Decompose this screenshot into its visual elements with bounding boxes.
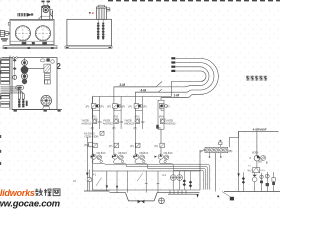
magnetic plug	[138, 200, 145, 204]
svg-text:B: B	[266, 161, 268, 165]
pilot box C1	[219, 142, 222, 145]
svg-text:AADN10: AADN10	[81, 121, 92, 125]
air filter fins A1	[18, 13, 26, 16]
capsule CP1	[16, 86, 24, 90]
svg-text:(P): (P)	[128, 105, 132, 109]
manifold stack MS1	[18, 99, 28, 108]
shut-off SV4	[160, 143, 164, 147]
gauge PG1	[92, 119, 97, 124]
cooler fan CF2	[177, 175, 183, 181]
foot F1	[22, 42, 27, 45]
svg-text:1W: 1W	[98, 120, 102, 124]
shut-off SV3	[136, 143, 140, 147]
base line right	[168, 194, 198, 197]
suction pipe	[113, 159, 126, 166]
manifold drain	[214, 153, 216, 192]
svg-text:CB-B10: CB-B10	[163, 151, 173, 155]
motor M1 vertical	[42, 6, 50, 19]
branch line	[134, 97, 136, 155]
hose H-T0	[172, 71, 207, 97]
svg-text:YZDB-10DN: YZDB-10DN	[84, 135, 99, 139]
motor feed pipe	[38, 16, 41, 20]
port tags	[171, 57, 175, 72]
branch line	[92, 97, 94, 155]
plate outline	[12, 58, 57, 110]
side valve V0	[0, 31, 4, 37]
svg-text:(P): (P)	[112, 126, 116, 130]
enclosure box	[93, 97, 201, 191]
hose H-A0	[135, 63, 214, 93]
svg-text:4-SRV60F: 4-SRV60F	[253, 128, 267, 132]
valve handle H1	[13, 59, 17, 62]
svg-text:(P)4: (P)4	[159, 115, 164, 119]
svg-text:(P): (P)	[86, 105, 90, 109]
drain line L	[86, 137, 88, 191]
svg-text:(P: (P	[200, 149, 203, 153]
svg-text:(P)1: (P)1	[92, 115, 97, 119]
tank left line	[84, 190, 110, 192]
svg-text:(P): (P)	[158, 126, 162, 130]
svg-text:Slidworks: Slidworks	[0, 188, 35, 198]
pump unit PU1	[91, 154, 96, 159]
svg-text:X: X	[249, 156, 251, 160]
svg-text:4-1: 4-1	[162, 173, 166, 177]
leader label L1	[43, 2, 48, 6]
valve handle H2	[13, 67, 17, 70]
gauge leg GL1	[266, 172, 268, 192]
drive motor DM1	[261, 156, 266, 161]
feet of plate	[14, 110, 17, 112]
header pipe 2-M	[114, 82, 162, 97]
svg-text:(P): (P)	[122, 105, 126, 109]
svg-text:(P): (P)	[166, 105, 170, 109]
svg-text:CB-B10: CB-B10	[118, 151, 128, 155]
pump cone P1	[27, 13, 31, 17]
tank line	[224, 191, 280, 193]
pump unit PU3	[134, 154, 139, 159]
branch line	[113, 97, 115, 155]
svg-text:CB-B10: CB-B10	[139, 151, 149, 155]
valve leg VL1	[273, 172, 275, 192]
svg-text:1W: 1W	[119, 120, 123, 124]
terminal strip column	[9, 56, 11, 111]
shut-off SV1	[93, 143, 97, 147]
svg-text:AADN25: AADN25	[165, 121, 176, 125]
header pipe 3	[161, 98, 187, 100]
clean-out cover C1	[15, 26, 30, 41]
drop line to tank	[238, 131, 240, 191]
svg-text:(P): (P)	[143, 105, 147, 109]
cooler fan CF1	[170, 175, 176, 181]
svg-text:(P): (P)	[100, 105, 104, 109]
svg-text:(P): (P)	[109, 144, 113, 148]
svg-text:AADN32: AADN32	[103, 121, 114, 125]
suction filter SF1	[256, 161, 258, 168]
foot F2	[42, 42, 47, 45]
pump unit PU2	[112, 154, 117, 159]
relief valve RV2	[113, 104, 118, 109]
gauge PG2	[114, 119, 119, 124]
header pipe 4-M	[135, 89, 161, 96]
suction pipe	[92, 159, 105, 164]
svg-text:WU: WU	[248, 169, 252, 172]
suction pipes into tank	[116, 171, 186, 194]
riser to header	[230, 137, 239, 147]
clean-out cover C2	[35, 26, 50, 41]
aux valve leg AV1	[261, 173, 263, 192]
svg-text:(Ps): (Ps)	[84, 143, 89, 147]
valve VPs	[89, 142, 93, 146]
check valve K1	[183, 179, 186, 186]
branch line	[160, 129, 162, 154]
svg-text:AADN25: AADN25	[124, 121, 135, 125]
gauge G0	[13, 75, 17, 79]
valve VD0	[100, 131, 104, 135]
svg-text:(B): (B)	[228, 149, 232, 153]
relief valve RV1	[91, 104, 96, 109]
svg-text:(P)2: (P)2	[113, 115, 118, 119]
svg-text:(P): (P)	[91, 126, 95, 130]
svg-text:(P): (P)	[130, 144, 134, 148]
breather CB	[159, 198, 165, 204]
tank T1	[10, 19, 54, 44]
main pump MP1	[256, 131, 258, 155]
bellows BL1	[44, 74, 50, 84]
svg-text:1W: 1W	[141, 120, 145, 124]
hose H-P0	[161, 58, 218, 97]
flange FL2	[107, 8, 110, 9]
pump unit PU4	[158, 154, 163, 159]
strainer ST1	[252, 175, 257, 177]
manifold housing U4	[158, 100, 164, 129]
port block PB1	[45, 80, 51, 84]
return pipe R1	[105, 164, 210, 189]
suction pipe	[159, 159, 173, 170]
pipe W1 from motor	[50, 11, 53, 19]
pump drive couplings	[91, 156, 167, 163]
bottom-left shutoff VB1	[88, 170, 90, 191]
svg-text:4-M: 4-M	[141, 89, 147, 93]
internal divider	[93, 170, 201, 172]
heater HX	[40, 59, 45, 62]
manifold MF1	[205, 147, 228, 152]
marker tag	[230, 197, 234, 201]
svg-text:YJ: YJ	[248, 166, 251, 168]
left edge marks	[0, 61, 1, 166]
svg-text:1-M: 1-M	[174, 94, 180, 98]
red mark	[89, 12, 91, 14]
base skid B2	[65, 46, 112, 48]
svg-text:ww.gocae.com: ww.gocae.com	[0, 198, 60, 209]
suction stack S1 (hidden)	[97, 23, 100, 40]
relief valve RV4	[159, 104, 164, 109]
sheet border dashed top	[108, 0, 280, 2]
svg-text:(P): (P)	[107, 105, 111, 109]
pipe bundle L-bends	[1, 87, 25, 99]
supply header 4-x	[239, 131, 279, 137]
svg-text:(M): (M)	[258, 160, 262, 163]
accumulator leg AC1	[242, 172, 244, 191]
gauge PG4	[160, 119, 165, 124]
check valve K2	[189, 181, 192, 188]
filter stack FS1	[24, 58, 26, 85]
oil tank TK	[110, 193, 200, 201]
fan pump FP1	[41, 95, 52, 106]
svg-text:2-M: 2-M	[120, 83, 126, 87]
base skid B1	[3, 46, 57, 49]
relief valve RV3	[134, 104, 139, 109]
suction stack S2 (hidden)	[102, 23, 105, 40]
leader dot	[217, 195, 219, 197]
svg-text:(P): (P)	[154, 144, 158, 148]
tank T2	[67, 19, 112, 46]
hose H-B0	[114, 67, 209, 87]
motor M2	[97, 7, 107, 19]
svg-text:4-1: 4-1	[93, 172, 97, 176]
suction pipe	[135, 159, 148, 168]
drain plug D1	[32, 42, 35, 44]
pipe run	[28, 67, 46, 69]
drawing title	[246, 76, 267, 81]
svg-text:WJB6: WJB6	[252, 152, 259, 155]
unit dividers	[100, 97, 143, 130]
svg-text:1:4.5: 1:4.5	[260, 170, 266, 172]
svg-text:CB-B10: CB-B10	[96, 151, 106, 155]
shut-off SV2	[114, 143, 118, 147]
svg-text:(P)3: (P)3	[135, 115, 140, 119]
gauge PG3	[135, 119, 140, 124]
svg-text:(P): (P)	[133, 126, 137, 130]
